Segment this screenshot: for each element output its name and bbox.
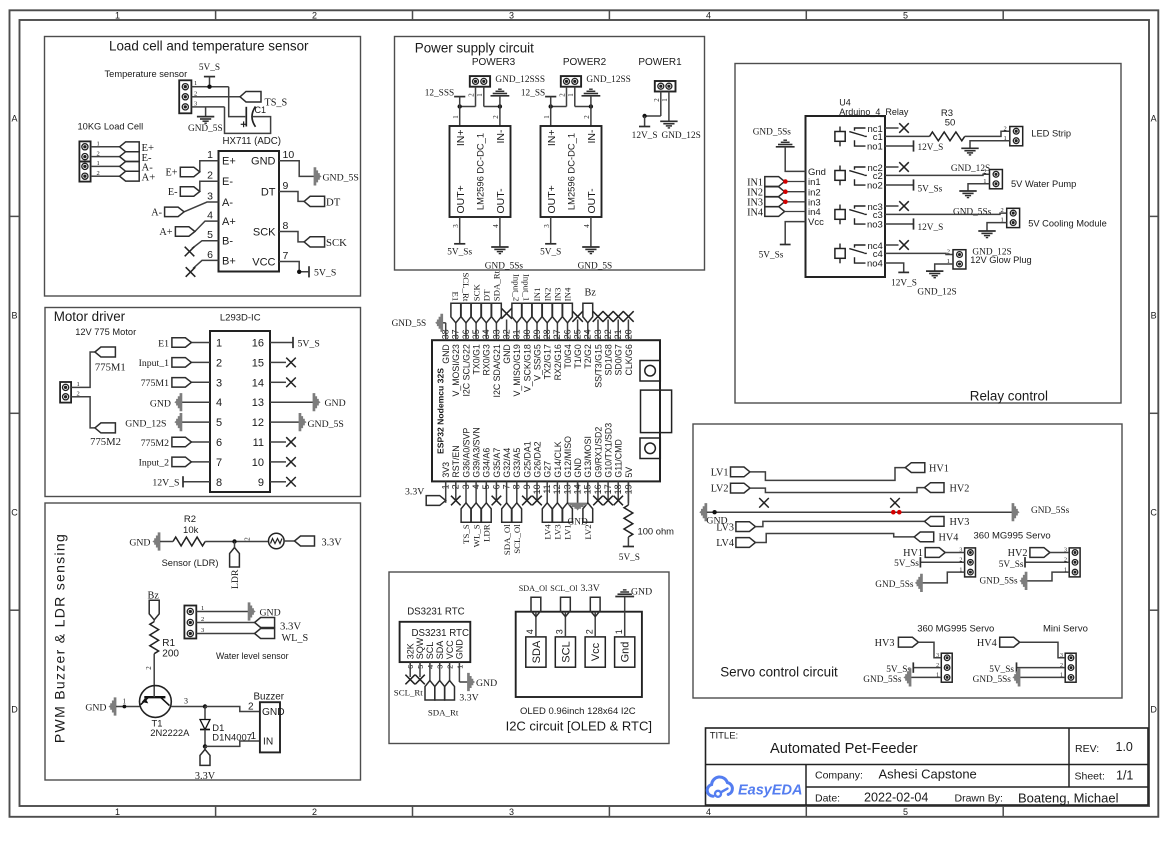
- wire GND to R2: [160, 541, 173, 543]
- net flag SDA_Ol (OLED pin4): [519, 584, 548, 617]
- svg-text:5V_Ss: 5V_Ss: [989, 665, 1014, 675]
- svg-text:2: 2: [145, 666, 153, 670]
- svg-text:12V_S: 12V_S: [152, 478, 179, 489]
- no-connect relay nc3: [885, 201, 909, 211]
- net flag LV3 (ESP32 pin12): [553, 503, 563, 540]
- svg-text:2022-02-04: 2022-02-04: [864, 791, 928, 805]
- svg-text:SCK: SCK: [253, 226, 276, 238]
- net flag Bz (ESP32 pin24): [583, 288, 596, 323]
- svg-text:Vcc: Vcc: [590, 642, 602, 661]
- svg-text:4: 4: [216, 397, 222, 409]
- ESP32 USB connector: [641, 390, 672, 433]
- svg-text:1: 1: [452, 115, 460, 119]
- svg-text:2: 2: [312, 10, 317, 20]
- no-connect DS3231 pin6: [405, 675, 415, 685]
- ground GND (OLED pin1): [615, 586, 652, 611]
- svg-text:4: 4: [492, 224, 500, 228]
- svg-text:4: 4: [706, 10, 711, 20]
- svg-text:50: 50: [945, 118, 956, 129]
- label Temperature sensor: [105, 69, 188, 79]
- connector P_motor 2-pin: [60, 381, 80, 403]
- svg-text:775M1: 775M1: [95, 362, 126, 374]
- svg-text:U4: U4: [839, 98, 851, 108]
- svg-text:RST/EN: RST/EN: [451, 445, 461, 477]
- net flag IN2 (ESP32 pin28): [542, 288, 552, 323]
- svg-text:TX0/G1: TX0/G1: [472, 344, 482, 374]
- svg-text:2: 2: [97, 170, 100, 177]
- svg-text:TS_S: TS_S: [265, 97, 288, 108]
- svg-text:Motor driver: Motor driver: [54, 309, 126, 324]
- no-connect ESP32 pin22: [603, 311, 614, 322]
- connector POWER3 screw terminal: [470, 76, 490, 87]
- wire LED strip pin1 to GND_12S: [970, 141, 1010, 149]
- net flag LV2 (ESP32 pin15): [583, 503, 593, 540]
- svg-text:GND_12S: GND_12S: [662, 131, 701, 141]
- section box: Load cell and temperature sensor: [45, 37, 361, 297]
- wire LDR to 3.3V: [284, 540, 294, 542]
- net flag SCL_Rt (ESP32 pin36): [461, 272, 471, 322]
- svg-text:Sheet:: Sheet:: [1075, 771, 1105, 783]
- power flag 3.3V (OLED pin2): [581, 583, 601, 617]
- svg-text:SCL: SCL: [560, 641, 572, 662]
- wire HX711 pin8 SCK: [279, 232, 304, 242]
- svg-text:TS_S: TS_S: [461, 524, 471, 544]
- no-connect ESP32 pin20: [623, 311, 634, 322]
- wire pump pin1 to GND_5Ss: [968, 184, 990, 191]
- wire HX711 pin3: [184, 202, 218, 212]
- net flag WL_S (ESP32 pin4): [471, 503, 481, 548]
- svg-text:G27: G27: [543, 461, 553, 478]
- wire servo ground bus: [707, 510, 1012, 514]
- svg-text:1: 1: [194, 80, 197, 87]
- svg-text:5V: 5V: [624, 467, 634, 478]
- wire relay Gnd pin: [785, 147, 805, 172]
- svg-text:5: 5: [207, 229, 213, 241]
- no-connect relay nc1: [885, 123, 909, 133]
- ground flag GND_5S (ESP32): [392, 314, 443, 331]
- svg-text:T0/G4: T0/G4: [563, 344, 573, 369]
- svg-text:3.3V: 3.3V: [581, 583, 600, 594]
- svg-text:OUT-: OUT-: [495, 188, 507, 214]
- net flag SCK: [304, 237, 347, 249]
- svg-text:3: 3: [555, 629, 565, 634]
- svg-text:EasyEDA: EasyEDA: [738, 783, 802, 799]
- svg-text:5V_S: 5V_S: [540, 248, 561, 258]
- svg-text:3: 3: [452, 224, 460, 228]
- svg-text:DT: DT: [261, 186, 276, 198]
- DS3231 pin stubs: [410, 662, 459, 682]
- net flag 775M2 (motor): [90, 423, 121, 448]
- svg-text:V_MISO/G19: V_MISO/G19: [512, 344, 522, 396]
- wires into LM2596 (POWER2): [543, 107, 591, 127]
- svg-text:SS/T3/G15: SS/T3/G15: [593, 344, 603, 388]
- power flag 3.3V (water level): [255, 618, 302, 633]
- svg-text:POWER2: POWER2: [563, 57, 607, 68]
- ground GND_12S (POWER1): [660, 121, 701, 141]
- svg-text:GND_12SS: GND_12SS: [586, 75, 630, 85]
- svg-text:LV2: LV2: [711, 484, 729, 495]
- net flag SCL_Rt (DS3231 pin4): [394, 681, 435, 701]
- no-connect relay nc4: [885, 240, 909, 250]
- svg-text:12_SS: 12_SS: [521, 89, 545, 99]
- svg-text:5V Cooling Module: 5V Cooling Module: [1028, 219, 1107, 229]
- svg-text:Drawn By:: Drawn By:: [955, 793, 1003, 805]
- wire water level pin1 to GND: [206, 611, 248, 613]
- net flag HV2 (top): [925, 483, 970, 495]
- wire LV2 to HV2: [750, 488, 925, 493]
- wire L293D pin6: [191, 441, 210, 443]
- svg-text:6: 6: [216, 437, 222, 449]
- connector POWER1 screw terminal: [655, 81, 676, 92]
- svg-text:GND_5Ss: GND_5Ss: [979, 576, 1018, 586]
- svg-text:1: 1: [216, 338, 222, 350]
- wire HX711 pin9 DT: [279, 192, 304, 202]
- svg-text:4: 4: [706, 807, 711, 817]
- wire POWER1 pin1 to GND_12S: [661, 92, 669, 122]
- diode D1 D1N4007: [200, 707, 252, 747]
- svg-text:TITLE:: TITLE:: [710, 731, 739, 742]
- svg-text:B: B: [1151, 310, 1157, 320]
- svg-text:100 ohm: 100 ohm: [638, 526, 675, 537]
- net flag HV4 (mid): [914, 532, 958, 544]
- svg-text:12V_S: 12V_S: [918, 223, 944, 233]
- svg-text:1: 1: [567, 93, 575, 97]
- connector servo 1 (HV1): [959, 548, 975, 577]
- svg-text:GND: GND: [150, 398, 171, 409]
- svg-text:SDA_Rt: SDA_Rt: [492, 270, 502, 301]
- label OLED 0.96inch 128x64 I2C: [520, 706, 636, 717]
- svg-text:1: 1: [543, 115, 551, 119]
- wire servo4 pin1 to GND_5Ss: [1020, 676, 1065, 678]
- svg-text:2: 2: [653, 98, 661, 102]
- svg-text:C1: C1: [255, 105, 267, 115]
- svg-text:IN-: IN-: [586, 129, 598, 144]
- svg-text:SDA: SDA: [435, 641, 445, 660]
- svg-text:10: 10: [283, 149, 295, 161]
- relay K2 coil and contacts: [835, 163, 883, 192]
- wire L293D pin5: [182, 421, 210, 423]
- svg-text:T2/G2: T2/G2: [583, 344, 593, 369]
- wire IN2 to in2: [785, 191, 806, 193]
- IC U4 Arduino_4_Relay body: [806, 98, 909, 278]
- svg-text:3: 3: [201, 627, 204, 634]
- svg-text:Load cell and temperature sens: Load cell and temperature sensor: [109, 39, 309, 54]
- svg-text:10: 10: [252, 457, 264, 469]
- svg-text:GND_5S: GND_5S: [188, 124, 223, 134]
- svg-text:A-: A-: [151, 208, 162, 219]
- wire glow plug pin1 to GND_12S: [935, 264, 953, 271]
- svg-text:GND_12SSS: GND_12SSS: [495, 75, 545, 85]
- ground flag GND (R2 left): [129, 533, 160, 550]
- svg-text:1: 1: [77, 381, 80, 388]
- wire pin3 / ground net: [206, 107, 225, 117]
- connector P_loadcell 4-pin: [79, 141, 100, 182]
- svg-text:3: 3: [207, 190, 213, 202]
- svg-text:GND_5Ss: GND_5Ss: [973, 675, 1012, 685]
- no-connect marker left: [759, 498, 769, 508]
- wire water level pin3 to WL_S: [206, 633, 255, 635]
- svg-text:G13/MOSI: G13/MOSI: [583, 436, 593, 478]
- label 10KG Load Cell: [78, 122, 144, 132]
- svg-text:12V_S: 12V_S: [918, 143, 944, 153]
- svg-text:3.3V: 3.3V: [405, 487, 424, 498]
- power 12V_S (relay no3): [914, 218, 944, 233]
- power flag 3.3V (LDR): [295, 536, 343, 548]
- svg-text:5V_S: 5V_S: [314, 268, 336, 279]
- wire IN3 to in3: [785, 201, 806, 203]
- net flag E- (HX711): [168, 187, 200, 198]
- svg-text:13: 13: [252, 397, 264, 409]
- svg-text:5V_S: 5V_S: [199, 63, 220, 73]
- wire DS3231 pin1 to GND: [459, 681, 467, 683]
- svg-text:OUT-: OUT-: [586, 188, 598, 214]
- wire no4 to 12V_S: [885, 263, 904, 272]
- svg-text:360 MG995 Servo: 360 MG995 Servo: [974, 531, 1051, 542]
- svg-text:D: D: [1150, 704, 1157, 714]
- buzzer BZ1: [254, 692, 285, 753]
- label Mini Servo (HV4): [1043, 624, 1088, 635]
- svg-text:REV:: REV:: [1075, 743, 1099, 755]
- svg-text:3.3V: 3.3V: [280, 621, 301, 633]
- svg-text:2: 2: [207, 170, 213, 182]
- wire L293D pin7: [191, 461, 210, 463]
- section box: Servo control circuit: [693, 424, 1122, 698]
- svg-text:VCC: VCC: [445, 640, 455, 660]
- ground flag GND_5S (L293D pin12): [299, 413, 344, 430]
- svg-text:5: 5: [903, 807, 908, 817]
- module U_ESP32 Nodemcu 32S body: [432, 340, 660, 481]
- wire L293D pin4: [182, 401, 210, 403]
- svg-text:HX711 (ADC): HX711 (ADC): [223, 136, 282, 147]
- label Sensor (LDR): [162, 558, 219, 568]
- net flag A- (load cell): [120, 162, 154, 174]
- svg-text:7: 7: [216, 457, 222, 469]
- svg-text:Gnd: Gnd: [620, 642, 632, 663]
- net flag SDA_Rt (ESP32 pin33): [492, 270, 502, 322]
- net flag SCK (ESP32 pin35): [471, 284, 481, 323]
- svg-text:Water level sensor: Water level sensor: [216, 651, 289, 661]
- no-connect L293D pin9: [270, 477, 296, 487]
- svg-text:GND_5Ss: GND_5Ss: [863, 675, 902, 685]
- svg-text:1/1: 1/1: [1116, 769, 1133, 783]
- svg-text:1: 1: [97, 141, 100, 148]
- svg-text:LV1: LV1: [711, 467, 729, 478]
- svg-text:G14/CLK: G14/CLK: [553, 441, 563, 477]
- svg-text:10KG Load Cell: 10KG Load Cell: [78, 122, 144, 132]
- svg-text:G12/MISO: G12/MISO: [563, 436, 573, 478]
- svg-text:Input_2: Input_2: [139, 458, 169, 469]
- no-connect ESP32 pin10: [532, 496, 542, 506]
- wire no1 to 12V_S: [885, 145, 914, 147]
- wire motor pin1 to 775M1: [80, 352, 95, 387]
- svg-text:3: 3: [509, 807, 514, 817]
- module LM2596 DC-DC (POWER2): [541, 126, 602, 217]
- no-connect ESP32 pin16: [593, 496, 603, 506]
- section box: I2C circuit: [389, 572, 669, 744]
- net flag TS_S (ESP32 pin3): [461, 503, 471, 544]
- L293D pin numbers: [216, 338, 264, 489]
- svg-text:1: 1: [115, 807, 120, 817]
- svg-text:GND: GND: [573, 458, 583, 478]
- title block texts: [710, 731, 1134, 806]
- title block frame: [706, 728, 1149, 805]
- svg-text:G33/A5: G33/A5: [512, 448, 522, 478]
- svg-text:A+: A+: [142, 171, 156, 183]
- net flag A- (HX711): [151, 207, 184, 218]
- svg-text:D: D: [11, 704, 18, 714]
- svg-text:LV4: LV4: [542, 524, 552, 540]
- svg-text:IN3: IN3: [553, 287, 563, 301]
- net flag 775M1 (motor): [95, 347, 126, 374]
- transistor T1 2N2222A: [140, 686, 191, 738]
- ground flag GND (servo bus left): [700, 504, 728, 527]
- svg-text:200: 200: [162, 649, 179, 660]
- svg-text:GND_5S: GND_5S: [392, 319, 427, 329]
- svg-text:16: 16: [252, 338, 264, 350]
- svg-text:Boateng, Michael: Boateng, Michael: [1018, 791, 1119, 806]
- svg-text:2: 2: [947, 249, 950, 256]
- svg-text:G26/DA2: G26/DA2: [532, 441, 542, 477]
- svg-text:I2C SCL/G22: I2C SCL/G22: [461, 344, 471, 396]
- ESP32 bottom pin stubs: [446, 481, 629, 502]
- ground flag GND_5Ss (servo4): [973, 669, 1020, 686]
- svg-text:3: 3: [509, 10, 514, 20]
- net flag LV2: [711, 483, 750, 494]
- svg-text:GND: GND: [251, 156, 276, 168]
- frame column ticks: [216, 10, 1004, 817]
- ground flag GND_5Ss (servo bus right): [1012, 504, 1070, 521]
- IC U_HX711 body: [219, 136, 282, 272]
- wire R1 to T1 base: [145, 654, 154, 687]
- svg-text:GND: GND: [85, 703, 106, 714]
- svg-text:IN4: IN4: [747, 207, 763, 218]
- wire L293D pin2: [191, 361, 210, 363]
- wire L293D pin8: [183, 481, 210, 483]
- svg-text:HV4: HV4: [977, 638, 997, 649]
- svg-text:OUT+: OUT+: [455, 185, 467, 213]
- net flag LV1: [711, 467, 750, 478]
- net flag HV3 (mid): [925, 517, 970, 529]
- wire R3 to LED strip: [965, 131, 1010, 136]
- wire R2 to LDR: [205, 539, 268, 543]
- wire cooling pin1 to GND_12S: [987, 223, 1007, 231]
- svg-text:VCC: VCC: [252, 256, 275, 268]
- wire IN4 to in4: [785, 211, 806, 213]
- no-connect L293D pin10: [270, 457, 296, 467]
- svg-text:no3: no3: [867, 220, 883, 231]
- HX711 pin names and numbers: [207, 149, 294, 268]
- no-connect ESP32 pin21: [613, 311, 624, 322]
- svg-text:ESP32 Nodemcu 32S: ESP32 Nodemcu 32S: [436, 368, 446, 454]
- svg-text:3.3V: 3.3V: [459, 692, 478, 703]
- power 5V_S (HX711 VCC): [309, 266, 336, 279]
- net flag HV3 (servo3): [875, 637, 919, 649]
- svg-text:5V_Ss: 5V_Ss: [999, 560, 1024, 570]
- svg-text:G10/TX1/SD3: G10/TX1/SD3: [604, 423, 614, 478]
- net flag A+ (load cell): [120, 171, 156, 183]
- wire L293D pin13: [270, 401, 313, 403]
- svg-text:IN: IN: [263, 737, 273, 748]
- net flag SDA_Ol (ESP32 pin7): [502, 503, 512, 555]
- wire IN1 to in1: [785, 181, 806, 183]
- svg-text:LV4: LV4: [716, 538, 734, 549]
- ground GND_5S (temp sensor): [188, 117, 223, 134]
- net flag E+ (load cell): [120, 142, 154, 154]
- svg-text:6: 6: [207, 249, 213, 261]
- ground GND_12SSS: [491, 75, 546, 107]
- svg-text:2: 2: [77, 390, 80, 397]
- module OLED display body: [516, 612, 642, 697]
- no-connect marker right: [890, 498, 900, 508]
- svg-text:SDA_Ol: SDA_Ol: [502, 524, 512, 555]
- svg-text:HV3: HV3: [875, 638, 895, 649]
- svg-text:SD0/G7: SD0/G7: [614, 344, 624, 375]
- power 5V_Ss (servo2 pin2): [999, 557, 1070, 570]
- wire L293D pin3: [191, 381, 210, 383]
- module LM2596 DC-DC (POWER3): [450, 126, 511, 217]
- power 5V_Ss (relay no2): [914, 179, 943, 194]
- wires POWER2 terminal to rails: [549, 87, 594, 109]
- svg-text:IN+: IN+: [546, 130, 558, 147]
- ESP32 top pin names: [441, 344, 634, 397]
- ground flag GND (L293D pin13): [313, 394, 346, 411]
- power 5V_Ss (relay Vcc): [759, 222, 806, 261]
- ESP32 top pin numbers: [441, 329, 634, 339]
- svg-text:I2C circuit [OLED & RTC]: I2C circuit [OLED & RTC]: [506, 719, 652, 734]
- frame row ticks: [10, 216, 1159, 610]
- wire servo1 pin1 to GND_5Ss: [922, 572, 964, 583]
- net flag HV1 (servo1): [903, 548, 945, 560]
- wire pin2 to TS_S flag: [206, 96, 240, 98]
- svg-text:OLED 0.96inch 128x64 I2C: OLED 0.96inch 128x64 I2C: [520, 706, 636, 717]
- power 5V_S (100 ohm): [619, 537, 640, 563]
- svg-text:R2: R2: [184, 514, 196, 525]
- wire servo3 pin1 to GND_5Ss: [911, 676, 941, 678]
- power flag 3.3V (DS3231 pin2): [445, 681, 479, 704]
- svg-text:SCL_Rt: SCL_Rt: [394, 688, 423, 698]
- net flag IN4 (ESP32 pin26): [563, 287, 573, 323]
- svg-text:1.0: 1.0: [1116, 740, 1133, 754]
- wire POWER1 pin2 to 12V_S: [642, 92, 661, 119]
- svg-text:1: 1: [201, 605, 204, 612]
- wire LV4 to HV4: [755, 534, 914, 543]
- svg-text:Sensor (LDR): Sensor (LDR): [162, 558, 219, 568]
- svg-text:E-: E-: [222, 176, 233, 188]
- svg-text:G39/A3/SVN: G39/A3/SVN: [472, 427, 482, 477]
- svg-text:1: 1: [123, 698, 127, 706]
- IC U_DS3231 RTC: [400, 607, 471, 663]
- resistor R1 200: [150, 622, 180, 660]
- ground flag GND (L293D pin4): [150, 394, 182, 411]
- svg-text:OUT+: OUT+: [546, 185, 558, 213]
- svg-text:no2: no2: [867, 181, 883, 192]
- net flag SDA_Rt (DS3231 pin3): [428, 681, 459, 718]
- svg-text:5V_Ss: 5V_Ss: [894, 559, 919, 569]
- ground flag GND (T1 emitter): [85, 698, 116, 715]
- relay K1 coil and contacts: [835, 124, 883, 153]
- net flag Input_2 (ESP32 pin31): [512, 274, 522, 323]
- svg-text:775M1: 775M1: [141, 378, 169, 389]
- section box: PWM Buzzer and LDR sensing: [45, 503, 361, 780]
- svg-text:LM2596 DC-DC_1: LM2596 DC-DC_1: [475, 133, 486, 210]
- svg-text:DT: DT: [482, 289, 492, 301]
- svg-text:SDA_Rt: SDA_Rt: [428, 708, 459, 718]
- svg-text:no1: no1: [867, 142, 883, 153]
- svg-text:A: A: [11, 113, 17, 123]
- svg-text:Bz: Bz: [585, 288, 597, 299]
- svg-text:3V3: 3V3: [441, 462, 451, 478]
- svg-text:LV3: LV3: [553, 524, 563, 540]
